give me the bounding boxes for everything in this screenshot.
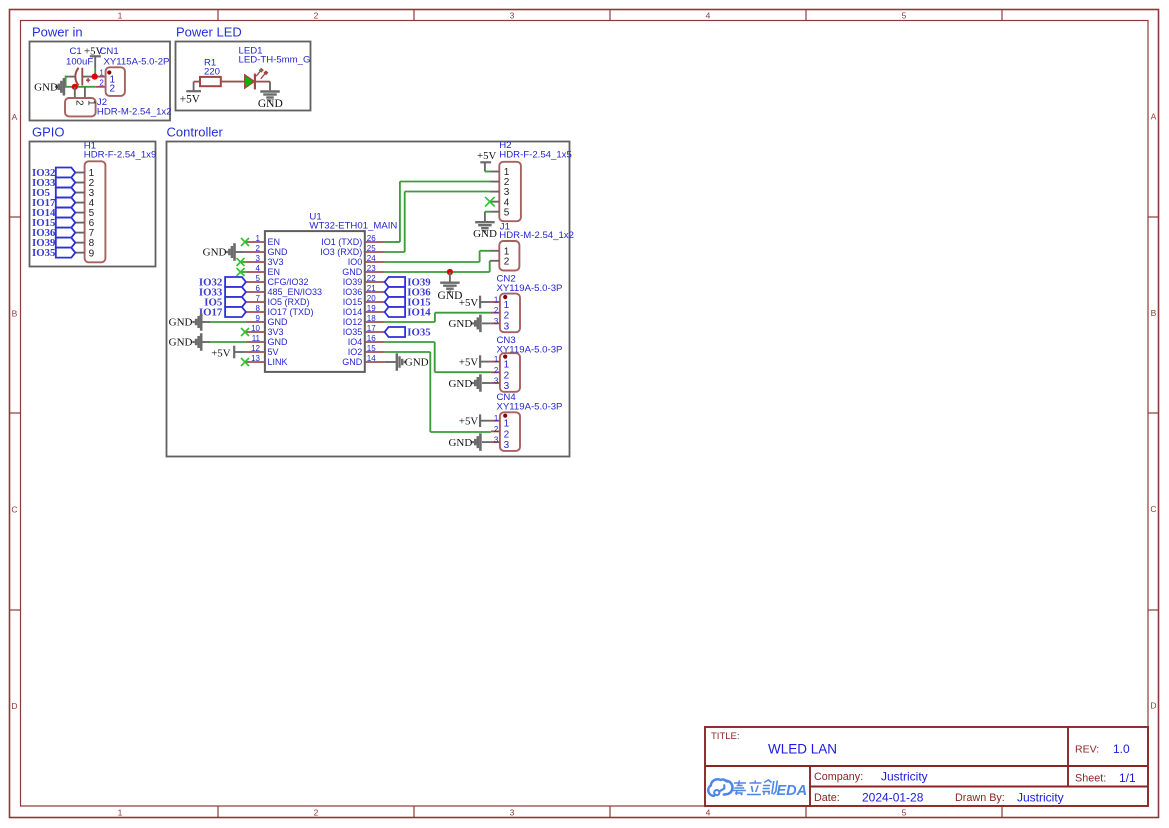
svg-text:CN1: CN1 — [100, 46, 119, 57]
svg-text:5V: 5V — [268, 347, 279, 357]
svg-text:3: 3 — [504, 440, 510, 451]
svg-text:Drawn By:: Drawn By: — [955, 792, 1005, 804]
svg-text:LED-TH-5mm_G: LED-TH-5mm_G — [239, 55, 311, 66]
svg-text:Date:: Date: — [814, 792, 840, 804]
svg-text:D: D — [11, 701, 17, 711]
svg-text:15: 15 — [367, 344, 376, 353]
svg-text:3: 3 — [510, 808, 515, 818]
svg-text:GND: GND — [268, 247, 289, 257]
svg-text:11: 11 — [252, 334, 261, 343]
svg-text:IO14: IO14 — [343, 307, 363, 317]
svg-text:17: 17 — [367, 324, 376, 333]
svg-text:2: 2 — [314, 11, 319, 21]
svg-text:2: 2 — [110, 84, 116, 95]
svg-text:Justricity: Justricity — [881, 770, 928, 784]
svg-text:14: 14 — [367, 354, 376, 363]
svg-text:IO2: IO2 — [348, 347, 363, 357]
svg-text:+5V: +5V — [459, 416, 478, 428]
svg-text:2024-01-28: 2024-01-28 — [862, 791, 924, 805]
svg-text:IO35: IO35 — [32, 247, 55, 259]
svg-text:IO17 (TXD): IO17 (TXD) — [268, 307, 314, 317]
svg-text:HDR-F-2.54_1x5: HDR-F-2.54_1x5 — [499, 150, 572, 161]
svg-text:5: 5 — [504, 207, 510, 218]
svg-text:XY115A-5.0-2P: XY115A-5.0-2P — [104, 57, 170, 68]
svg-text:+5V: +5V — [459, 356, 478, 368]
svg-text:Controller: Controller — [167, 124, 224, 139]
svg-text:B: B — [12, 309, 18, 319]
svg-text:CFG/IO32: CFG/IO32 — [268, 277, 309, 287]
svg-text:HDR-M-2.54_1x2: HDR-M-2.54_1x2 — [97, 106, 172, 117]
svg-text:24: 24 — [367, 254, 376, 263]
svg-text:2: 2 — [494, 366, 499, 375]
svg-text:2: 2 — [494, 425, 499, 434]
svg-text:GND: GND — [268, 317, 289, 327]
svg-text:2: 2 — [99, 79, 104, 88]
svg-text:XY119A-5.0-3P: XY119A-5.0-3P — [497, 283, 563, 294]
svg-text:3: 3 — [504, 321, 510, 332]
svg-text:100uF: 100uF — [66, 57, 93, 68]
svg-text:485_EN/IO33: 485_EN/IO33 — [268, 287, 323, 297]
svg-text:2: 2 — [504, 311, 510, 322]
svg-text:IO0: IO0 — [348, 257, 363, 267]
svg-text:19: 19 — [367, 304, 376, 313]
svg-text:8: 8 — [256, 304, 261, 313]
svg-text:EDA: EDA — [777, 783, 808, 799]
svg-text:1: 1 — [99, 68, 104, 77]
svg-text:+5V: +5V — [211, 347, 230, 359]
svg-text:21: 21 — [367, 284, 376, 293]
svg-text:3V3: 3V3 — [268, 327, 284, 337]
svg-text:IO5 (RXD): IO5 (RXD) — [268, 297, 310, 307]
svg-text:IO14: IO14 — [407, 307, 431, 319]
svg-text:A: A — [12, 112, 18, 122]
svg-text:25: 25 — [367, 244, 376, 253]
svg-text:5: 5 — [902, 11, 907, 21]
svg-text:Power in: Power in — [32, 25, 83, 40]
svg-text:4: 4 — [706, 11, 711, 21]
svg-text:HDR-F-2.54_1x9: HDR-F-2.54_1x9 — [84, 150, 157, 161]
svg-text:1.0: 1.0 — [1113, 742, 1130, 756]
svg-text:2: 2 — [73, 100, 84, 106]
svg-text:IO3 (RXD): IO3 (RXD) — [320, 247, 362, 257]
svg-text:IO35: IO35 — [343, 327, 363, 337]
svg-text:GND: GND — [448, 378, 472, 390]
svg-text:1: 1 — [256, 234, 261, 243]
svg-text:GND: GND — [405, 357, 429, 369]
svg-text:3V3: 3V3 — [268, 257, 284, 267]
svg-text:1: 1 — [504, 419, 510, 430]
svg-text:IO36: IO36 — [343, 287, 363, 297]
svg-text:7: 7 — [256, 294, 261, 303]
svg-text:GND: GND — [342, 357, 363, 367]
svg-text:WT32-ETH01_MAIN: WT32-ETH01_MAIN — [309, 221, 397, 232]
svg-text:2: 2 — [504, 429, 510, 440]
svg-text:GND: GND — [169, 337, 193, 349]
svg-text:1: 1 — [118, 11, 123, 21]
svg-text:Justricity: Justricity — [1017, 791, 1064, 805]
svg-text:+5V: +5V — [180, 94, 200, 106]
svg-text:EN: EN — [268, 237, 281, 247]
svg-text:IO35: IO35 — [407, 327, 430, 339]
svg-text:C: C — [1150, 504, 1156, 514]
svg-text:1: 1 — [118, 808, 123, 818]
svg-text:C1: C1 — [70, 46, 82, 57]
svg-text:EN: EN — [268, 267, 281, 277]
svg-text:2: 2 — [504, 256, 510, 267]
svg-text:9: 9 — [89, 248, 95, 259]
svg-text:12: 12 — [251, 344, 260, 353]
svg-text:16: 16 — [367, 334, 376, 343]
svg-text:2: 2 — [494, 306, 499, 315]
svg-text:REV:: REV: — [1075, 744, 1099, 756]
svg-text:5: 5 — [902, 808, 907, 818]
svg-text:+5V: +5V — [459, 297, 478, 309]
svg-text:IO15: IO15 — [343, 297, 363, 307]
svg-text:IO39: IO39 — [343, 277, 363, 287]
svg-text:2: 2 — [256, 244, 261, 253]
svg-text:1: 1 — [494, 296, 499, 305]
svg-text:IO4: IO4 — [348, 337, 363, 347]
svg-text:XY119A-5.0-3P: XY119A-5.0-3P — [497, 402, 563, 413]
svg-text:GPIO: GPIO — [32, 124, 65, 139]
svg-text:IO12: IO12 — [343, 317, 363, 327]
svg-text:18: 18 — [367, 314, 376, 323]
svg-text:+5V: +5V — [477, 150, 496, 162]
svg-text:2: 2 — [504, 370, 510, 381]
svg-text:3: 3 — [256, 254, 261, 263]
svg-text:20: 20 — [367, 294, 376, 303]
svg-text:4: 4 — [256, 264, 261, 273]
svg-text:Company:: Company: — [814, 771, 863, 783]
svg-text:A: A — [1151, 112, 1157, 122]
svg-text:WLED LAN: WLED LAN — [768, 742, 837, 757]
svg-text:C: C — [11, 505, 17, 515]
svg-text:4: 4 — [706, 808, 711, 818]
svg-text:HDR-M-2.54_1x2: HDR-M-2.54_1x2 — [499, 230, 574, 241]
svg-text:3: 3 — [494, 377, 499, 386]
svg-text:5: 5 — [256, 274, 261, 283]
svg-text:1/1: 1/1 — [1119, 771, 1136, 785]
svg-text:1: 1 — [494, 414, 499, 423]
svg-text:3: 3 — [494, 436, 499, 445]
svg-text:GND: GND — [268, 337, 289, 347]
svg-text:GND: GND — [258, 98, 283, 110]
svg-text:1: 1 — [504, 360, 510, 371]
svg-text:B: B — [1151, 308, 1157, 318]
svg-text:Sheet:: Sheet: — [1075, 773, 1106, 785]
svg-text:3: 3 — [494, 317, 499, 326]
svg-text:9: 9 — [256, 314, 261, 323]
svg-text:6: 6 — [256, 284, 261, 293]
svg-text:22: 22 — [367, 274, 376, 283]
svg-text:TITLE:: TITLE: — [711, 731, 740, 742]
svg-text:2: 2 — [314, 808, 319, 818]
svg-text:GND: GND — [203, 247, 227, 259]
svg-text:10: 10 — [251, 324, 260, 333]
svg-text:1: 1 — [494, 355, 499, 364]
svg-text:Power LED: Power LED — [176, 25, 242, 40]
svg-text:IO1 (TXD): IO1 (TXD) — [321, 237, 362, 247]
svg-text:13: 13 — [251, 354, 260, 363]
svg-text:D: D — [1150, 701, 1156, 711]
svg-text:GND: GND — [473, 228, 497, 240]
svg-text:GND: GND — [34, 82, 58, 94]
svg-text:1: 1 — [86, 100, 97, 106]
svg-text:1: 1 — [504, 300, 510, 311]
svg-text:3: 3 — [510, 11, 515, 21]
svg-text:GND: GND — [448, 318, 472, 330]
svg-text:26: 26 — [367, 234, 376, 243]
svg-text:GND: GND — [169, 317, 193, 329]
svg-text:3: 3 — [504, 381, 510, 392]
svg-text:LINK: LINK — [268, 357, 288, 367]
svg-text:GND: GND — [342, 267, 363, 277]
svg-text:23: 23 — [367, 264, 376, 273]
svg-text:GND: GND — [448, 437, 472, 449]
